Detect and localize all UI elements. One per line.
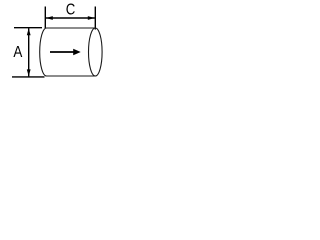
arrowhead A down (27, 69, 31, 76)
dimension line A (28, 28, 30, 76)
flow arrow inside cylinder: shaft (50, 51, 75, 53)
extension line left of C dimension (44, 7, 46, 29)
arrowhead A up (27, 28, 31, 35)
dimension line C (46, 17, 95, 19)
svg-text:C: C (66, 2, 76, 19)
cylinder body bottom edge (47, 75, 96, 77)
cylinder body top edge (47, 27, 96, 29)
cylinder left end arc (40, 28, 47, 76)
label A (left dimension) (13, 44, 22, 61)
cylinder right end ellipse (89, 28, 103, 76)
flow arrow inside cylinder: head (73, 49, 81, 55)
arrowhead C right (88, 16, 95, 20)
extension line top of A dimension (14, 27, 42, 29)
svg-text:A: A (13, 44, 22, 61)
extension line bottom of A dimension (12, 76, 45, 78)
arrowhead C left (46, 16, 53, 20)
extension line right of C dimension (94, 7, 96, 30)
label C (top dimension) (66, 2, 76, 19)
